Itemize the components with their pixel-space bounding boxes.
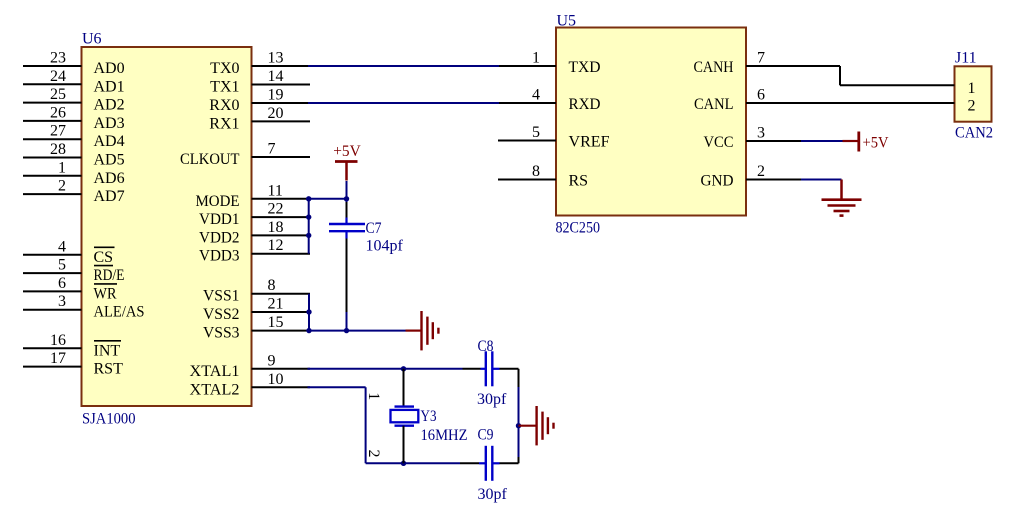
svg-text:AD1: AD1 bbox=[94, 78, 125, 95]
svg-text:VDD1: VDD1 bbox=[199, 211, 240, 228]
svg-text:6: 6 bbox=[757, 87, 765, 104]
svg-text:U6: U6 bbox=[82, 31, 102, 48]
svg-text:AD5: AD5 bbox=[94, 152, 125, 169]
svg-text:19: 19 bbox=[268, 87, 284, 104]
svg-text:CLKOUT: CLKOUT bbox=[180, 151, 240, 168]
svg-text:+5V: +5V bbox=[863, 135, 889, 152]
svg-text:23: 23 bbox=[50, 50, 66, 67]
svg-text:CAN2: CAN2 bbox=[955, 125, 993, 142]
svg-text:CANH: CANH bbox=[694, 59, 734, 76]
svg-text:1: 1 bbox=[532, 50, 540, 67]
svg-text:2: 2 bbox=[58, 178, 66, 195]
svg-text:26: 26 bbox=[50, 104, 66, 121]
svg-text:C9: C9 bbox=[478, 427, 494, 444]
svg-text:18: 18 bbox=[268, 219, 284, 236]
svg-text:8: 8 bbox=[532, 163, 540, 180]
svg-text:VCC: VCC bbox=[704, 134, 734, 151]
svg-text:RXD: RXD bbox=[569, 96, 601, 113]
svg-text:WR: WR bbox=[94, 285, 117, 302]
svg-text:17: 17 bbox=[50, 350, 66, 367]
svg-text:U5: U5 bbox=[557, 13, 577, 30]
svg-text:+5V: +5V bbox=[333, 143, 361, 160]
svg-text:TX1: TX1 bbox=[210, 79, 239, 96]
svg-text:2: 2 bbox=[757, 163, 765, 180]
svg-text:XTAL2: XTAL2 bbox=[190, 381, 240, 398]
svg-text:VSS2: VSS2 bbox=[203, 306, 240, 323]
svg-text:22: 22 bbox=[268, 201, 284, 218]
svg-text:RX1: RX1 bbox=[209, 115, 239, 132]
svg-text:AD4: AD4 bbox=[94, 133, 125, 150]
svg-text:7: 7 bbox=[757, 50, 765, 67]
svg-text:INT: INT bbox=[94, 342, 121, 359]
svg-text:ALE/AS: ALE/AS bbox=[94, 304, 145, 321]
svg-text:25: 25 bbox=[50, 86, 66, 103]
svg-text:AD2: AD2 bbox=[94, 97, 125, 114]
svg-text:C8: C8 bbox=[478, 338, 494, 355]
svg-text:4: 4 bbox=[532, 87, 540, 104]
svg-text:TXD: TXD bbox=[569, 59, 601, 76]
svg-text:XTAL1: XTAL1 bbox=[190, 363, 240, 380]
svg-text:CS: CS bbox=[94, 249, 114, 266]
svg-text:14: 14 bbox=[268, 68, 284, 85]
svg-text:RX0: RX0 bbox=[209, 97, 239, 114]
svg-text:30pf: 30pf bbox=[477, 391, 507, 408]
svg-text:7: 7 bbox=[268, 141, 276, 158]
svg-text:CANL: CANL bbox=[694, 96, 734, 113]
svg-text:5: 5 bbox=[532, 124, 540, 141]
svg-text:VSS3: VSS3 bbox=[203, 325, 240, 342]
svg-text:RS: RS bbox=[569, 173, 589, 190]
svg-text:TX0: TX0 bbox=[210, 60, 239, 77]
svg-text:1: 1 bbox=[58, 159, 66, 176]
svg-text:GND: GND bbox=[701, 173, 734, 190]
svg-text:16: 16 bbox=[50, 332, 66, 349]
svg-text:28: 28 bbox=[50, 141, 66, 158]
svg-text:J11: J11 bbox=[955, 50, 977, 67]
svg-text:RD/E: RD/E bbox=[94, 267, 125, 284]
svg-text:VSS1: VSS1 bbox=[203, 288, 240, 305]
svg-text:6: 6 bbox=[58, 275, 66, 292]
svg-text:5: 5 bbox=[58, 257, 66, 274]
svg-text:1: 1 bbox=[968, 80, 976, 97]
svg-text:VDD2: VDD2 bbox=[199, 229, 240, 246]
svg-text:13: 13 bbox=[268, 50, 284, 67]
svg-text:4: 4 bbox=[58, 238, 66, 255]
svg-text:3: 3 bbox=[757, 125, 765, 142]
svg-text:104pf: 104pf bbox=[366, 238, 404, 255]
svg-text:2: 2 bbox=[365, 450, 382, 458]
svg-text:9: 9 bbox=[268, 352, 276, 369]
svg-text:12: 12 bbox=[268, 237, 284, 254]
svg-text:1: 1 bbox=[365, 392, 382, 400]
svg-text:10: 10 bbox=[268, 371, 284, 388]
svg-text:SJA1000: SJA1000 bbox=[82, 411, 136, 428]
svg-text:20: 20 bbox=[268, 105, 284, 122]
svg-text:VDD3: VDD3 bbox=[199, 248, 240, 265]
svg-text:8: 8 bbox=[268, 277, 276, 294]
svg-text:AD6: AD6 bbox=[94, 170, 125, 187]
svg-text:11: 11 bbox=[268, 182, 283, 199]
svg-text:C7: C7 bbox=[366, 220, 382, 237]
svg-text:82C250: 82C250 bbox=[556, 220, 601, 237]
svg-text:27: 27 bbox=[50, 123, 66, 140]
svg-text:21: 21 bbox=[268, 296, 284, 313]
svg-text:16MHZ: 16MHZ bbox=[421, 427, 468, 444]
svg-text:VREF: VREF bbox=[569, 134, 610, 151]
svg-text:AD7: AD7 bbox=[94, 188, 125, 205]
svg-text:2: 2 bbox=[968, 98, 976, 115]
svg-text:Y3: Y3 bbox=[421, 408, 437, 425]
svg-text:RST: RST bbox=[94, 361, 124, 378]
svg-text:24: 24 bbox=[50, 68, 66, 85]
svg-text:3: 3 bbox=[58, 293, 66, 310]
svg-text:AD0: AD0 bbox=[94, 60, 125, 77]
svg-text:30pf: 30pf bbox=[478, 486, 508, 503]
svg-text:MODE: MODE bbox=[196, 193, 240, 210]
svg-text:15: 15 bbox=[268, 314, 284, 331]
svg-text:AD3: AD3 bbox=[94, 115, 125, 132]
